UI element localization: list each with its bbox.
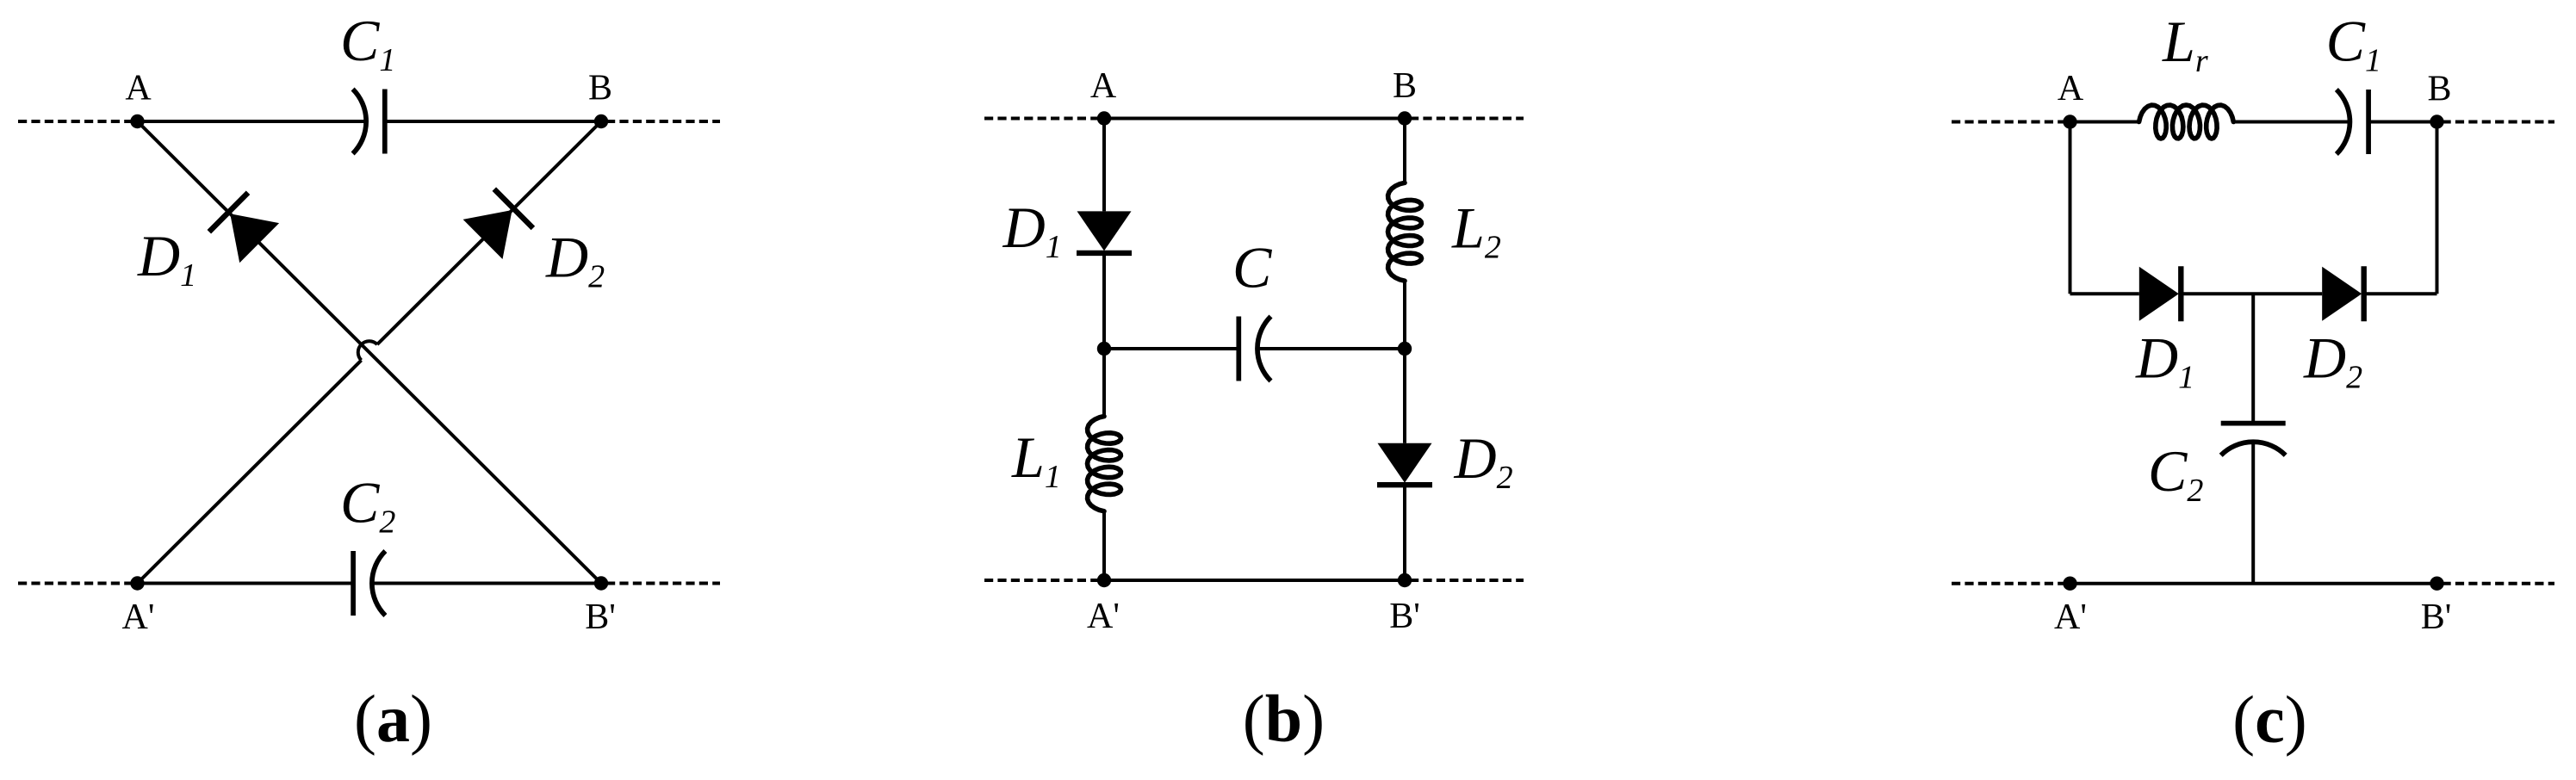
wire dashed lead right of node B (b): [1410, 117, 1524, 121]
wire dashed lead left of node A' (a): [18, 582, 133, 585]
node B (a): [594, 115, 608, 128]
svg-text:B': B': [2421, 597, 2452, 637]
diode D2 (c): [2322, 266, 2364, 321]
wire diagonal A to B' (a): [138, 121, 602, 584]
wire mid node to L1 (b): [1102, 349, 1106, 417]
capacitor C2 (c): [2221, 424, 2286, 455]
wire A to C1 (a): [138, 120, 367, 123]
wire A to Lr (c): [2070, 121, 2139, 124]
node A' (b): [1097, 573, 1111, 587]
wire dashed lead right of node B (c): [2443, 121, 2555, 124]
wire crossing hop to A' (a): [138, 360, 362, 583]
node A (c): [2063, 115, 2076, 128]
svg-text:B: B: [2427, 69, 2451, 108]
wire D2 to B branch (c): [2364, 292, 2437, 295]
svg-text:C: C: [1232, 234, 1272, 300]
svg-text:(a): (a): [354, 681, 432, 756]
wire dashed lead left of node A' (b): [984, 579, 1099, 582]
wire A down to diode rail (c): [2069, 122, 2072, 294]
wire crossing hop arc (a): [358, 341, 377, 360]
node B' (a): [594, 576, 608, 590]
wire dashed lead left of node A (b): [984, 117, 1099, 121]
svg-text:(c): (c): [2232, 682, 2307, 757]
svg-text:B': B': [585, 597, 616, 637]
inductor Lr (c): [2139, 105, 2234, 139]
diode D2 (b): [1377, 443, 1432, 486]
wire C1 to B (a): [385, 120, 601, 123]
diode D1 (b): [1077, 211, 1132, 253]
wire dashed lead right of node B' (c): [2443, 582, 2555, 585]
diode D2 (a): [463, 189, 533, 259]
svg-text:B: B: [588, 69, 612, 108]
svg-text:B: B: [1393, 66, 1417, 106]
node B (c): [2430, 115, 2443, 128]
wire dashed lead right of node B' (a): [606, 582, 720, 585]
wire B to L2 (b): [1403, 119, 1406, 183]
wire Lr to C1 (c): [2233, 121, 2349, 124]
wire A' to C2 (a): [138, 582, 354, 585]
wire A to D1 (b): [1102, 119, 1106, 212]
capacitor C (b): [1238, 317, 1270, 381]
wire A to B (b): [1104, 117, 1405, 121]
svg-text:A': A': [2054, 597, 2087, 637]
wire dashed lead left of node A (c): [1952, 121, 2065, 124]
svg-text:A: A: [125, 69, 152, 108]
inductor L2 (b): [1388, 183, 1422, 281]
node mid-left junction (b): [1097, 342, 1111, 356]
wire dashed lead left of node A' (c): [1952, 582, 2065, 585]
capacitor C1 (a): [353, 90, 385, 154]
node A' (a): [130, 576, 144, 590]
svg-text:B': B': [1389, 597, 1420, 636]
wire A' to B' (b): [1104, 579, 1405, 582]
wire B down to diode rail (c): [2436, 122, 2439, 294]
wire L1 to A' (b): [1102, 511, 1106, 580]
svg-text:A: A: [1090, 66, 1117, 106]
wire mid-left node to C (b): [1104, 347, 1238, 350]
node B (b): [1398, 111, 1412, 125]
wire dashed lead right of node B' (b): [1410, 579, 1524, 582]
wire C to mid-right node (b): [1257, 347, 1405, 350]
wire mid node to D2 (b): [1403, 349, 1406, 443]
wire C1 to B (c): [2368, 121, 2436, 124]
svg-text:A': A': [1087, 597, 1120, 636]
wire dashed lead right of node B (a): [606, 120, 720, 123]
wire C2 to B' (a): [372, 582, 601, 585]
wire rail to D1 (c): [2070, 292, 2139, 295]
wire D1 to mid node (b): [1102, 253, 1106, 349]
wire C2 down to bottom rail (c): [2251, 441, 2255, 584]
wire diagonal B to crossing hop (a): [377, 121, 601, 344]
wire D2 to B' (b): [1403, 485, 1406, 580]
svg-text:A': A': [122, 597, 155, 637]
wire dashed lead left of node A (a): [18, 120, 133, 123]
wire A' to B' (c): [2070, 582, 2437, 585]
capacitor C2 (a): [353, 551, 385, 616]
capacitor C1 (c): [2337, 90, 2368, 154]
wire D1 to D2 via center junction (c): [2181, 292, 2322, 295]
diode D1 (c): [2139, 266, 2182, 321]
svg-text:(b): (b): [1243, 681, 1325, 756]
node A (a): [130, 115, 144, 128]
node A' (c): [2063, 577, 2076, 591]
node mid-right junction (b): [1398, 342, 1412, 356]
diode D1 (a): [209, 193, 279, 263]
svg-text:A: A: [2058, 69, 2084, 108]
node A (b): [1097, 111, 1111, 125]
wire L2 to mid node (b): [1403, 281, 1406, 349]
node B' (b): [1398, 573, 1412, 587]
node B' (c): [2430, 577, 2443, 591]
wire center junction down to C2 (c): [2251, 294, 2255, 424]
inductor L1 (b): [1088, 417, 1121, 511]
